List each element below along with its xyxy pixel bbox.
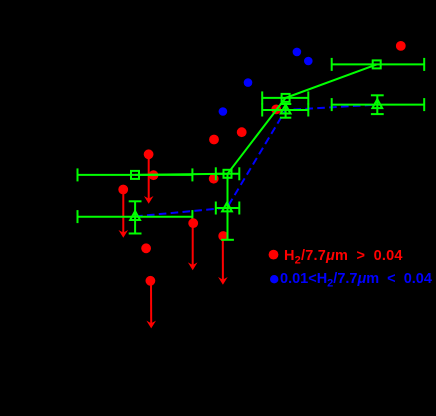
red point P8 (271, 105, 281, 115)
triangle T1 y-error bar (134, 201, 136, 233)
arrow from P11 (222, 236, 224, 280)
red point P7 (209, 174, 219, 184)
square S4 (373, 60, 381, 68)
svg-text:0.01<H2/7.7μm < 0.04: 0.01<H2/7.7μm < 0.04 (280, 271, 432, 290)
red point P9 (over green cap) (188, 218, 198, 228)
blue point B3 (244, 78, 253, 87)
triangle T4 x-error bar (332, 104, 425, 106)
blue data points group (219, 48, 313, 116)
legend blue symbol (270, 275, 278, 283)
svg-text:H2/7.7μm > 0.04: H2/7.7μm > 0.04 (284, 248, 403, 267)
square S3 x-error bar (262, 97, 308, 99)
triangle T1 x-error bar (78, 216, 193, 218)
square S2 y-error bar (227, 174, 229, 240)
arrow from P2 (148, 155, 150, 199)
square S3 (282, 94, 290, 102)
triangle T2 x-error bar (216, 207, 240, 209)
triangle T3 (281, 105, 291, 114)
blue point B1 (293, 48, 302, 57)
blue point B2 (304, 57, 313, 66)
legend red symbol (269, 250, 279, 260)
green solid median line through squares (135, 64, 377, 174)
red point P2 (144, 149, 154, 159)
triangle T1 (130, 211, 140, 220)
square S2 x-error bar (216, 173, 240, 175)
red point P1 top right (396, 41, 406, 51)
red upper-limit arrows (119, 155, 228, 328)
triangle T3 y-error bar (285, 104, 287, 118)
red point P10 (141, 243, 151, 253)
triangle T2 (222, 203, 232, 212)
triangle T4 (372, 99, 382, 108)
triangle T3 x-error bar (262, 109, 308, 111)
arrow from P9 (188, 223, 198, 270)
square S1 x-error bar (78, 174, 193, 176)
red point P5 (209, 135, 219, 145)
triangle T4 y-error bar (376, 95, 378, 114)
square S4 x-error bar (332, 63, 425, 65)
red data points group (118, 41, 405, 286)
green error bars (78, 58, 425, 240)
arrow from P4 (122, 190, 124, 233)
green open triangles (130, 99, 382, 220)
red point P11 (218, 231, 228, 241)
red point P3 (149, 170, 159, 180)
blue point B4 (219, 107, 228, 116)
square S2 (224, 170, 232, 178)
red point P12 (146, 276, 156, 286)
square S1 (131, 171, 139, 179)
green open squares (131, 60, 381, 178)
blue dashed median line through triangles (135, 105, 377, 217)
red point P4 (118, 185, 128, 195)
arrow from P12 (150, 281, 152, 324)
red point P6 (237, 127, 247, 137)
